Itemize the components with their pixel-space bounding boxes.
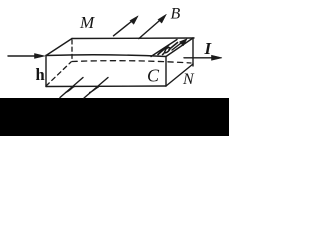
svg-text:h: h — [36, 65, 45, 84]
hidden back-left vertical edge (dashed) — [71, 40, 73, 61]
wire: front bottom edge — [46, 85, 166, 88]
svg-text:B: B — [171, 6, 181, 23]
left arrow head — [35, 54, 46, 59]
svg-text:N: N — [182, 71, 195, 88]
output current arrow I — [184, 57, 215, 59]
black bar bottom — [0, 98, 229, 136]
wire: right end bottom slant edge — [166, 64, 193, 86]
wire: back right vertical edge — [192, 38, 194, 66]
B field arrow 2 head — [158, 14, 166, 23]
wire: top-left slant edge — [46, 39, 72, 56]
I arrow head — [212, 55, 223, 60]
B field arrow 2 shaft — [139, 18, 163, 39]
B field arrow 1 shaft — [114, 19, 136, 36]
hidden bottom-left slant edge (dashed) — [46, 62, 71, 86]
B line 1 flourish slash — [66, 87, 75, 93]
B line 2 flourish slash — [90, 87, 99, 93]
B field arrow 1 head — [130, 16, 138, 24]
B field lower line 1 — [60, 78, 83, 98]
wire: front top edge MN slab — [46, 55, 166, 57]
wire: front left vertical edge — [45, 56, 47, 87]
left input current arrow — [8, 55, 37, 57]
svg-text:M: M — [79, 13, 95, 32]
svg-text:C: C — [147, 66, 160, 86]
wire: back top edge — [72, 37, 194, 40]
slice hatching scribble — [158, 46, 169, 55]
wire: front right vertical edge — [165, 57, 167, 87]
cross-section slice diagonal — [151, 40, 177, 57]
B field arrow 3 shaft (through slice) — [172, 41, 184, 50]
B field arrow 3 head — [180, 39, 188, 46]
hidden back bottom edge (dashed) — [72, 61, 191, 63]
B field lower line 2 — [84, 78, 108, 99]
wire: right end top slant edge — [166, 38, 193, 57]
